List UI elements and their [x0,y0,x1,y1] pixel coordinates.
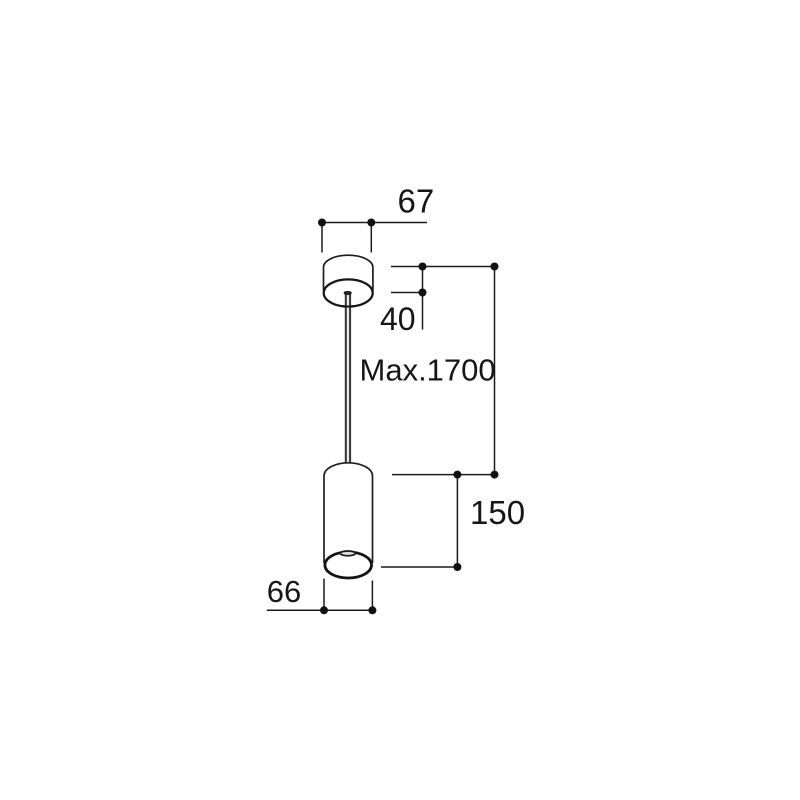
dimension line 67 (top horizontal) [322,222,427,224]
dimension line 66 (bottom horizontal) [267,609,373,611]
dot endpoint 67 right [367,219,375,227]
svg-text:40: 40 [380,301,416,337]
dot endpoint 67 left [318,219,326,227]
lamp body top arc [324,463,373,476]
canopy left side [323,267,325,291]
canopy bottom arc over cable [343,305,355,308]
suspension cable core (light) [347,295,350,463]
extension line left of 66 dim [323,579,325,611]
lamp body left side [323,476,325,563]
dimension line at canopy bottom (40 lower) [391,292,423,294]
canopy right side [372,267,374,291]
dot 40 bottom [419,289,427,297]
dot 150 bottom [453,563,461,571]
suspension cable right strand [349,295,351,463]
dimension line 150 bottom [381,566,457,568]
canopy bottom ellipse [324,279,373,306]
canopy top arc [324,255,373,267]
svg-text:Max.1700: Max.1700 [360,353,496,388]
dot endpoint 66 left [320,606,328,614]
canopy cable hub [345,292,351,294]
vertical line of 40 dim [422,267,424,330]
vertical line of Max.1700 dim [494,267,496,475]
dimension line at canopy top (40/Max.1700 upper) [391,266,495,268]
dot 40 top [419,263,427,271]
dot 150 top-left [453,471,461,479]
svg-text:67: 67 [398,183,435,220]
lamp bottom rim ellipse [325,552,372,578]
dot Max.1700 top [491,263,499,271]
vertical line of 150 dim [456,475,458,567]
lamp body right side [372,476,374,563]
suspension cable left strand [345,295,347,463]
dot Max.1700 bottom [491,471,499,479]
svg-text:66: 66 [267,574,301,609]
extension line right of 66 dim [371,581,373,611]
extension line left of 67 dim [321,223,323,253]
dot endpoint 66 right [368,606,376,614]
dimension line 150 top [392,474,495,476]
lamp socket inner ellipse [340,551,355,556]
svg-text:150: 150 [470,494,525,531]
extension line right of 67 dim [370,223,372,253]
